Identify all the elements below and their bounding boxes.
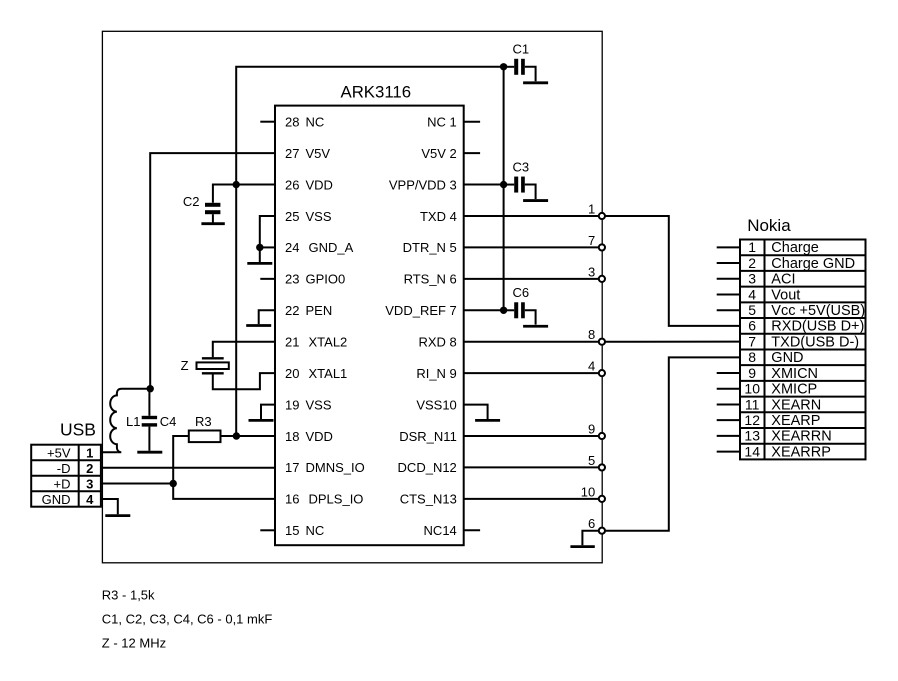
svg-text:ARK3116: ARK3116 [341, 82, 412, 101]
wire pin18 VDD [236, 435, 275, 437]
wire Nokia stub 11 [717, 403, 740, 405]
ground VSS19 [249, 419, 274, 422]
svg-text:XTAL2: XTAL2 [309, 335, 348, 350]
wire pin to node 3 [464, 278, 602, 280]
svg-text:DMNS_IO: DMNS_IO [306, 460, 365, 475]
svg-text:6: 6 [748, 318, 756, 334]
wire pin26 VDD [236, 184, 275, 186]
wire pin21 XTAL2 [213, 342, 275, 358]
svg-text:Vcc +5V(USB): Vcc +5V(USB) [771, 303, 865, 319]
pin 28 stub [260, 121, 275, 123]
wire Nokia stub 5 [717, 309, 740, 311]
wire R3 left lead down to DPLS [173, 436, 275, 499]
wire Nokia stub 10 [717, 388, 740, 390]
svg-text:1: 1 [748, 239, 756, 255]
svg-text:C2: C2 [183, 194, 200, 209]
svg-text:7: 7 [588, 233, 595, 248]
node 1 [599, 213, 605, 219]
node 4 [599, 370, 605, 376]
pin 23 stub [260, 278, 275, 280]
wire node6 to Nokia pin8 [602, 357, 740, 530]
svg-text:5: 5 [748, 302, 756, 318]
svg-text:VSS: VSS [306, 397, 332, 412]
svg-text:NC 1: NC 1 [427, 115, 457, 130]
capacitor C1 [514, 59, 518, 75]
ground C2 [201, 222, 224, 225]
svg-text:TXD 4: TXD 4 [420, 209, 457, 224]
svg-text:VDD: VDD [306, 429, 333, 444]
svg-text:Charge: Charge [771, 240, 819, 256]
wire USB +5V [101, 451, 118, 453]
svg-text:1: 1 [86, 445, 93, 460]
svg-text:14: 14 [744, 443, 760, 459]
svg-text:R3: R3 [195, 414, 212, 429]
wire Nokia stub 4 [717, 293, 740, 295]
svg-text:C4: C4 [160, 414, 177, 429]
svg-text:DPLS_IO: DPLS_IO [309, 492, 364, 507]
svg-text:Nokia: Nokia [747, 216, 791, 235]
svg-text:+5V: +5V [47, 445, 71, 460]
connector USB table [31, 445, 101, 507]
wire [525, 67, 536, 81]
svg-text:RXD 8: RXD 8 [419, 335, 457, 350]
svg-text:TXD(USB D-): TXD(USB D-) [771, 334, 859, 350]
wire Nokia stub 2 [717, 262, 740, 264]
svg-text:28: 28 [285, 115, 299, 130]
wire [504, 184, 515, 186]
node 6 [599, 528, 605, 534]
op IC U1 ARK3116 body [275, 106, 464, 546]
svg-text:10: 10 [581, 484, 595, 499]
svg-text:Z - 12 MHz: Z - 12 MHz [102, 636, 166, 651]
svg-text:26: 26 [285, 177, 299, 192]
svg-text:13: 13 [744, 428, 760, 444]
svg-text:20: 20 [285, 366, 299, 381]
svg-text:4: 4 [588, 359, 595, 374]
svg-text:XEARRP: XEARRP [771, 444, 831, 460]
svg-text:GND: GND [771, 350, 803, 366]
svg-text:3: 3 [86, 476, 93, 491]
wire C4 top lead [148, 389, 150, 416]
capacitor C3 [514, 177, 518, 193]
svg-text:2: 2 [86, 461, 93, 476]
node 7 [599, 244, 605, 250]
svg-text:NC: NC [306, 523, 325, 538]
wire USB +D [101, 482, 173, 484]
svg-text:C6: C6 [513, 285, 530, 300]
wire Nokia stub 14 [717, 451, 740, 453]
svg-text:C1, C2, C3, C4, C6 - 0,1 mkF: C1, C2, C3, C4, C6 - 0,1 mkF [102, 612, 273, 627]
wire [504, 309, 515, 311]
ground PEN [246, 324, 271, 327]
svg-text:NC: NC [306, 115, 325, 130]
wire Nokia stub 3 [717, 278, 740, 280]
ground GND_A [259, 247, 261, 263]
wire pin to node 5 [464, 466, 602, 468]
wire node1 to Nokia pin6 [602, 216, 740, 326]
svg-text:Vout: Vout [771, 287, 800, 303]
svg-text:R3 - 1,5k: R3 - 1,5k [102, 588, 155, 603]
svg-text:23: 23 [285, 272, 299, 287]
svg-text:V5V 2: V5V 2 [421, 146, 456, 161]
pin 15 stub [260, 529, 275, 531]
crystal Z [202, 357, 224, 359]
svg-text:8: 8 [588, 327, 595, 342]
node VSS/GND_A junction [256, 244, 263, 251]
wire pin19 VSS [261, 405, 275, 419]
svg-text:USB: USB [60, 420, 96, 440]
svg-text:ACI: ACI [771, 272, 795, 288]
svg-text:Z: Z [181, 358, 189, 373]
svg-text:XEARP: XEARP [771, 413, 820, 429]
svg-text:6: 6 [588, 516, 595, 531]
inductor L1 [110, 389, 150, 452]
ground C4 [137, 451, 162, 454]
svg-text:XEARRN: XEARRN [771, 429, 831, 445]
wire pin22 PEN [259, 310, 275, 324]
ground [523, 325, 548, 328]
wire [504, 66, 515, 68]
svg-text:11: 11 [745, 396, 760, 412]
svg-text:3: 3 [748, 271, 756, 287]
svg-text:7: 7 [748, 333, 756, 349]
svg-text:10: 10 [744, 381, 760, 397]
svg-text:V5V: V5V [306, 146, 331, 161]
wire pin to node 10 [464, 498, 602, 500]
svg-text:Charge GND: Charge GND [771, 256, 855, 272]
wire Nokia stub 1 [717, 246, 740, 248]
node C3 junction [500, 181, 507, 188]
node C1 junction [500, 63, 507, 70]
svg-text:XMICN: XMICN [771, 366, 818, 382]
svg-text:1: 1 [588, 201, 595, 216]
svg-text:8: 8 [748, 349, 756, 365]
wire C4 bottom lead [148, 427, 150, 451]
ground USB GND [105, 514, 130, 517]
svg-text:C3: C3 [513, 159, 530, 174]
wire [525, 185, 536, 199]
svg-text:GND_A: GND_A [309, 240, 354, 255]
svg-text:25: 25 [285, 209, 299, 224]
svg-text:-D: -D [57, 461, 71, 476]
node R3/VDD junction [233, 432, 240, 439]
svg-text:VDD_REF 7: VDD_REF 7 [385, 303, 457, 318]
svg-text:24: 24 [285, 240, 299, 255]
svg-text:VSS: VSS [306, 209, 332, 224]
svg-text:XEARN: XEARN [771, 397, 821, 413]
svg-text:VDD: VDD [306, 177, 333, 192]
node 8 [599, 339, 605, 345]
svg-text:GPIO0: GPIO0 [306, 272, 346, 287]
wire pin17 DMNS_IO to USB -D [101, 467, 275, 469]
svg-text:PEN: PEN [306, 303, 333, 318]
resistor R3 [189, 431, 221, 443]
wire pin20 XTAL1 [213, 373, 275, 389]
capacitor C2 [205, 203, 220, 207]
node 10 [599, 496, 605, 502]
wire to C2 [213, 185, 236, 203]
svg-text:19: 19 [285, 397, 299, 412]
svg-text:9: 9 [748, 365, 756, 381]
wire pin to node 9 [464, 435, 602, 437]
node VDD junction [233, 181, 240, 188]
svg-text:5: 5 [588, 453, 595, 468]
ground node6 [570, 545, 594, 548]
svg-text:2: 2 [748, 255, 756, 271]
svg-text:9: 9 [588, 421, 595, 436]
wire pin to node 8 [464, 341, 602, 343]
wire Nokia stub 13 [717, 435, 740, 437]
board border [102, 31, 602, 563]
svg-text:3: 3 [588, 264, 595, 279]
wire USB GND [101, 499, 118, 514]
svg-text:17: 17 [285, 460, 299, 475]
node 9 [599, 433, 605, 439]
svg-text:RXD(USB D+): RXD(USB D+) [771, 319, 864, 335]
ground VSS10 [475, 419, 500, 422]
svg-text:NC14: NC14 [424, 523, 457, 538]
svg-text:22: 22 [285, 303, 299, 318]
wire pin to node 1 [464, 215, 602, 217]
wire pin10 VSS10 [464, 405, 488, 419]
capacitor C4 [142, 416, 157, 419]
svg-text:4: 4 [86, 492, 94, 507]
svg-text:VSS10: VSS10 [416, 397, 456, 412]
svg-text:+D: +D [54, 476, 71, 491]
wire pin27 V5V [150, 153, 275, 389]
wire pin3 VPP/VDD [464, 184, 504, 186]
ground [523, 199, 548, 202]
svg-text:DSR_N11: DSR_N11 [399, 429, 457, 444]
svg-text:RTS_N 6: RTS_N 6 [404, 272, 457, 287]
pin 2 stub [464, 152, 480, 154]
wire VDD rail vertical [236, 67, 503, 436]
pin 14 stub [464, 529, 480, 531]
pin 1 stub [464, 121, 480, 123]
node C6 junction [500, 307, 507, 314]
svg-text:27: 27 [285, 146, 299, 161]
wire pin7 VDD_REF [464, 309, 504, 311]
wire node8 to Nokia pin7 [602, 341, 740, 343]
wire Nokia stub 9 [717, 372, 740, 374]
wire C2 to ground [212, 214, 214, 223]
svg-text:DCD_N12: DCD_N12 [398, 460, 457, 475]
svg-text:GND: GND [42, 492, 71, 507]
svg-text:XTAL1: XTAL1 [309, 366, 348, 381]
svg-text:C1: C1 [513, 42, 530, 57]
connector Nokia table [740, 240, 866, 460]
svg-text:15: 15 [285, 523, 299, 538]
wire pin to node 7 [464, 246, 602, 248]
node 3 [599, 276, 605, 282]
ground [523, 81, 548, 84]
wire pin to node 4 [464, 372, 602, 374]
svg-text:21: 21 [285, 335, 299, 350]
svg-text:4: 4 [748, 286, 756, 302]
wire R3 right lead [221, 435, 237, 437]
node L1/C4 junction [147, 385, 154, 392]
svg-text:16: 16 [285, 492, 299, 507]
wire pin25 VSS [260, 216, 275, 247]
node 5 [599, 464, 605, 470]
capacitor C6 [514, 302, 518, 318]
svg-text:VPP/VDD 3: VPP/VDD 3 [389, 177, 457, 192]
svg-text:18: 18 [285, 429, 299, 444]
svg-text:RI_N 9: RI_N 9 [416, 366, 456, 381]
wire node6 ground lead [582, 531, 602, 546]
svg-text:12: 12 [744, 412, 760, 428]
svg-text:XMICP: XMICP [771, 382, 817, 398]
svg-text:L1: L1 [126, 414, 140, 429]
node D+ junction [170, 480, 177, 487]
svg-text:DTR_N 5: DTR_N 5 [403, 240, 457, 255]
svg-text:CTS_N13: CTS_N13 [400, 492, 457, 507]
wire pin24 GND_A [260, 246, 275, 248]
wire Nokia stub 12 [717, 419, 740, 421]
wire C column vertical [503, 67, 505, 310]
wire [525, 310, 536, 324]
